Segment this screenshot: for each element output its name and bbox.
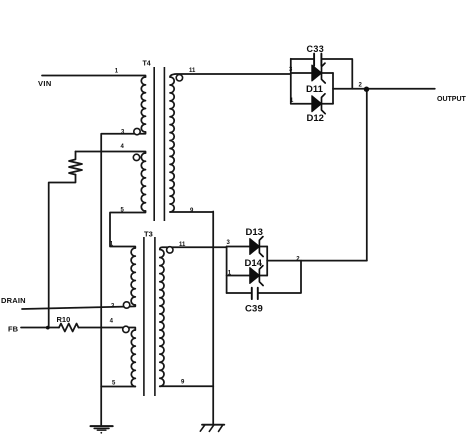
svg-text:D12: D12: [307, 113, 324, 124]
phase dot T4 pin 3: [134, 128, 140, 134]
wire rectifier2 left vertical (node 3 to C39): [226, 247, 228, 294]
svg-text:D14: D14: [245, 258, 263, 269]
transformer T3 secondary winding (pins 11-9): [160, 250, 164, 387]
wire T4 pin 11 to rectifier node 3: [170, 74, 291, 77]
phase dot T4 pin 11: [176, 75, 182, 81]
svg-text:D13: D13: [246, 227, 263, 238]
transformer T3 winding 2 (pins 4-5): [131, 330, 135, 386]
junction node 2 output: [364, 87, 369, 92]
wire rectifier1 right vertical: [332, 73, 334, 104]
wire rectifier2 right vertical: [266, 247, 268, 276]
ground 1 (earth, left): [91, 425, 113, 427]
wire VIN to T4 pin 1: [42, 76, 146, 78]
svg-text:D11: D11: [306, 84, 324, 95]
svg-text:11: 11: [189, 68, 196, 74]
diode D14: [250, 268, 260, 284]
svg-text:FB: FB: [8, 325, 19, 334]
wire capacitor C39 branch: [227, 261, 301, 293]
T3 core: [144, 237, 155, 396]
phase dot T3 pin 4: [123, 326, 129, 332]
wire D12 row: [291, 103, 333, 105]
wire T3 pin 5 to ground node: [101, 386, 135, 388]
wire D11 row: [291, 72, 333, 74]
wire T3 pin 3 to DRAIN: [22, 305, 135, 309]
diode D13: [250, 239, 260, 255]
resistor (unlabeled, T4 pin 4 snubber): [69, 152, 82, 175]
junction FB node: [46, 326, 50, 330]
wire T3 pin 11 to rectifier node 3: [160, 247, 227, 249]
wire T4 pin 4 from resistor: [76, 152, 146, 154]
svg-text:OUTPUT: OUTPUT: [437, 96, 467, 103]
svg-text:C39: C39: [245, 304, 263, 315]
wire rectifier1 left vertical (node 3 to node 1): [290, 59, 292, 104]
wire D14 row: [227, 275, 268, 277]
capacitor C33 plates: [314, 54, 321, 66]
wire T4 pin 5 to T3 pin 1: [110, 211, 146, 248]
wire T3 pin 9 to ground 2: [160, 385, 213, 387]
wire R10 to T3 pin 4: [79, 328, 136, 331]
capacitor C39 plates: [252, 288, 258, 299]
diode D12: [312, 96, 322, 112]
wire rectifier2 node 2 row: [267, 260, 367, 262]
wire output node down to rectifier2 node 2: [366, 89, 368, 261]
svg-text:T4: T4: [143, 61, 151, 68]
wire node 2 to OUTPUT: [333, 88, 435, 90]
svg-text:T3: T3: [144, 229, 153, 238]
svg-text:VIN: VIN: [38, 79, 52, 88]
svg-text:R10: R10: [57, 315, 71, 324]
svg-text:C33: C33: [307, 44, 325, 54]
ground 2 (chassis, right): [202, 424, 224, 426]
wire T4 pin 3 down to ground node: [101, 132, 145, 425]
resistor R10: [59, 324, 79, 332]
transformer T4 primary winding 1 (pins 1-3): [141, 77, 145, 132]
transformer T4 secondary winding (pins 11-9): [170, 77, 174, 212]
T4 core: [154, 67, 164, 221]
diode D11: [312, 65, 322, 81]
svg-text:11: 11: [179, 242, 186, 248]
transformer T3 winding 1 (pins 1-3): [131, 248, 135, 305]
wire T4 pin 9 down to ground 2: [170, 212, 213, 425]
wire FB node to R10: [21, 327, 59, 329]
phase dot T4 pin 4: [133, 154, 139, 160]
phase dot T3 pin 11: [167, 247, 173, 253]
svg-text:DRAIN: DRAIN: [1, 296, 26, 305]
transformer T4 primary winding 2 (pins 4-5): [141, 153, 145, 211]
wire capacitor C33 branch: [291, 59, 353, 89]
wire resistor to FB node: [49, 175, 76, 328]
phase dot T3 pin 3: [123, 302, 129, 308]
wire D13 row: [227, 246, 268, 248]
